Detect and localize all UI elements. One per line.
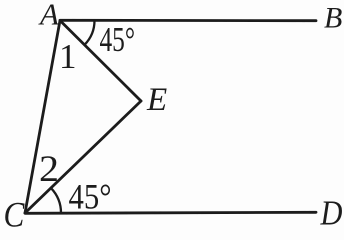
svg-text:B: B (324, 2, 342, 35)
svg-text:2: 2 (39, 148, 59, 189)
svg-text:45°: 45° (100, 20, 136, 59)
svg-text:1: 1 (59, 37, 77, 76)
svg-text:A: A (38, 0, 60, 32)
svg-text:45°: 45° (69, 177, 112, 217)
svg-text:D: D (320, 195, 343, 233)
svg-text:C: C (4, 196, 25, 233)
svg-text:E: E (146, 82, 167, 118)
